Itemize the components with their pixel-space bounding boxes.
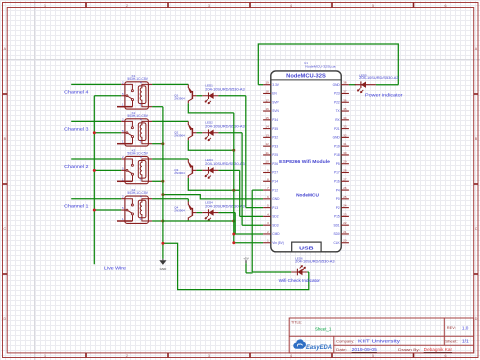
junction bus/K3 bbox=[93, 169, 96, 172]
svg-text:+5V: +5V bbox=[243, 256, 248, 260]
svg-text:6: 6 bbox=[445, 4, 447, 8]
svg-text:P2: P2 bbox=[336, 206, 340, 210]
svg-text:15: 15 bbox=[265, 116, 269, 120]
svg-text:2019-09-05: 2019-09-05 bbox=[352, 347, 378, 352]
svg-text:2: 2 bbox=[126, 4, 128, 8]
svg-text:20: 20 bbox=[343, 239, 347, 243]
module right pins 38..20 bbox=[333, 81, 349, 245]
svg-text:24: 24 bbox=[343, 204, 347, 208]
svg-text:Power indicator: Power indicator bbox=[365, 93, 403, 98]
svg-text:1.0: 1.0 bbox=[462, 325, 469, 330]
wire K2 pin 4 to Q2 collector bbox=[152, 120, 188, 122]
wire coil ground rail bbox=[162, 107, 164, 259]
svg-text:37: 37 bbox=[343, 89, 347, 93]
svg-text:204-10SURD/S530-A3: 204-10SURD/S530-A3 bbox=[205, 204, 245, 208]
junction rail/K3 pin 3 bbox=[161, 180, 164, 183]
relay K2 503H-1C-C5V bbox=[117, 111, 152, 146]
svg-text:P19: P19 bbox=[334, 144, 340, 148]
svg-text:3: 3 bbox=[208, 4, 210, 8]
svg-text:1: 1 bbox=[44, 4, 46, 8]
op-amp U1 NodeMCU-32S module body bbox=[271, 61, 341, 252]
svg-text:KIIT University: KIIT University bbox=[358, 338, 401, 343]
svg-text:EasyEDA: EasyEDA bbox=[306, 344, 332, 351]
svg-text:27: 27 bbox=[343, 177, 347, 181]
svg-text:204-10SURD/S530-A3: 204-10SURD/S530-A3 bbox=[205, 88, 245, 92]
svg-text:Wifi Check Indicator: Wifi Check Indicator bbox=[279, 278, 321, 283]
wire LED3 to module SD2 bbox=[218, 170, 263, 216]
text Power indicator bbox=[365, 93, 403, 98]
svg-text:2N3904: 2N3904 bbox=[174, 171, 185, 175]
wire 3.3V loop over module bbox=[258, 44, 398, 85]
svg-text:1: 1 bbox=[44, 354, 46, 358]
svg-text:Company:: Company: bbox=[336, 339, 354, 343]
wire bus to K2 pin 5 bbox=[94, 132, 121, 134]
svg-text:EN: EN bbox=[272, 92, 277, 96]
svg-text:19: 19 bbox=[265, 81, 269, 85]
wire 3.3V pin 19 bbox=[258, 84, 263, 86]
wire wifi LED right bbox=[307, 271, 309, 273]
svg-text:Channel 4: Channel 4 bbox=[64, 89, 89, 94]
wire Q1 base to LED1 bbox=[196, 95, 202, 97]
svg-text:Debagnik Kar: Debagnik Kar bbox=[424, 347, 453, 352]
svg-text:P4: P4 bbox=[336, 188, 340, 192]
wire GND pin 38 to power LED bbox=[349, 84, 356, 86]
junction rail/Q3 emitter bbox=[232, 189, 235, 192]
wire K1 pin 4 to Q1 collector bbox=[152, 83, 188, 85]
svg-text:Channel 1: Channel 1 bbox=[64, 204, 89, 209]
svg-text:NodeMCU-32SLua: NodeMCU-32SLua bbox=[305, 64, 336, 68]
svg-text:P21: P21 bbox=[334, 127, 340, 131]
relay K4 503H-1C-C5V bbox=[117, 188, 152, 223]
svg-text:13: 13 bbox=[265, 133, 269, 137]
junction rail/wifi loop bbox=[161, 242, 164, 245]
svg-text:GND: GND bbox=[272, 197, 280, 201]
svg-text:P13: P13 bbox=[272, 206, 278, 210]
svg-text:SVN: SVN bbox=[272, 109, 279, 113]
svg-text:14: 14 bbox=[265, 125, 269, 129]
wire Q2 emitter to rail bbox=[188, 140, 234, 150]
svg-text:2: 2 bbox=[126, 354, 128, 358]
svg-text:1/1: 1/1 bbox=[462, 338, 470, 343]
svg-text:36: 36 bbox=[343, 98, 347, 102]
wire Channel 4 to relay pin 2 bbox=[71, 83, 121, 85]
svg-text:5: 5 bbox=[372, 4, 374, 8]
svg-text:17: 17 bbox=[265, 98, 269, 102]
wire LED1 to module P13 bbox=[218, 96, 263, 208]
svg-text:NodeMCU-32S: NodeMCU-32S bbox=[286, 74, 326, 80]
svg-text:25: 25 bbox=[343, 195, 347, 199]
relay K3 503H-1C-C5V bbox=[117, 149, 152, 184]
svg-text:3: 3 bbox=[208, 354, 210, 358]
wire CMD row bbox=[234, 233, 263, 235]
wire Q3 base to LED3 bbox=[196, 169, 202, 171]
svg-text:P0: P0 bbox=[336, 197, 340, 201]
svg-text:USB: USB bbox=[299, 245, 315, 250]
svg-text:Sheet_1: Sheet_1 bbox=[315, 326, 332, 331]
svg-text:SD0: SD0 bbox=[333, 232, 339, 236]
wire bus to K3 pin 5 bbox=[94, 169, 121, 171]
svg-text:P27: P27 bbox=[272, 171, 278, 175]
svg-text:11: 11 bbox=[266, 151, 269, 155]
svg-text:Sheet:: Sheet: bbox=[445, 339, 458, 343]
svg-text:P35: P35 bbox=[272, 127, 278, 131]
wire bus to K1 pin 5 bbox=[94, 95, 121, 97]
net label Channel 1 bbox=[64, 204, 89, 209]
wire LED4 drop to CMD row bbox=[218, 213, 235, 234]
svg-text:3.3V: 3.3V bbox=[272, 83, 279, 87]
net label Channel 2 bbox=[64, 164, 89, 169]
wire Q3 emitter over to drop bbox=[188, 178, 239, 190]
ground symbol GND bbox=[159, 259, 167, 271]
svg-text:P25: P25 bbox=[272, 153, 278, 157]
svg-text:204-10SURD/S530-A3: 204-10SURD/S530-A3 bbox=[359, 76, 399, 80]
svg-text:5: 5 bbox=[372, 354, 374, 358]
svg-text:ESP8266 Wifi Module: ESP8266 Wifi Module bbox=[279, 159, 330, 164]
net label Live Wire bbox=[104, 266, 126, 271]
LED1 204-10SURD/S530-A3 bbox=[202, 83, 245, 103]
svg-text:4: 4 bbox=[290, 4, 292, 8]
svg-text:Date:: Date: bbox=[336, 348, 347, 352]
svg-text:SD2: SD2 bbox=[272, 215, 278, 219]
svg-text:Channel 2: Channel 2 bbox=[64, 164, 89, 169]
svg-text:23: 23 bbox=[343, 212, 347, 216]
junction rail/CMD bbox=[232, 233, 235, 236]
svg-text:204-10SURD/S530-A3: 204-10SURD/S530-A3 bbox=[295, 260, 335, 264]
svg-text:NodeMCU: NodeMCU bbox=[296, 193, 320, 198]
wire K4 pin 3 to ground rail bbox=[152, 220, 163, 222]
svg-text:SD3: SD3 bbox=[272, 223, 278, 227]
svg-text:31: 31 bbox=[343, 142, 347, 146]
svg-text:P26: P26 bbox=[272, 162, 278, 166]
svg-text:REV:: REV: bbox=[447, 326, 456, 330]
svg-text:Drawn By:: Drawn By: bbox=[398, 348, 420, 352]
svg-text:503H-1C-C5V: 503H-1C-C5V bbox=[127, 191, 148, 195]
+5V supply flag bbox=[243, 256, 248, 263]
wire power LED to loop bbox=[376, 84, 398, 86]
junction rail/K2 pin 3 bbox=[161, 142, 164, 145]
svg-text:26: 26 bbox=[343, 186, 347, 190]
svg-text:TITLE:: TITLE: bbox=[291, 320, 302, 324]
svg-text:503H-1C-C5V: 503H-1C-C5V bbox=[127, 114, 148, 118]
EasyEDA logo bbox=[294, 340, 333, 351]
svg-text:C: C bbox=[3, 227, 6, 231]
svg-text:35: 35 bbox=[343, 107, 347, 111]
svg-text:GND: GND bbox=[333, 136, 341, 140]
svg-text:10: 10 bbox=[265, 160, 269, 164]
wire Channel 2 to relay pin 2 bbox=[71, 158, 121, 160]
svg-text:P17: P17 bbox=[334, 171, 340, 175]
svg-text:C: C bbox=[475, 227, 478, 231]
svg-text:22: 22 bbox=[343, 221, 347, 225]
svg-text:2N3904: 2N3904 bbox=[174, 134, 185, 138]
transistor Q1 2N3904 bbox=[174, 85, 196, 104]
relay K1 503H-1C-C5V bbox=[117, 74, 152, 109]
svg-text:38: 38 bbox=[343, 81, 347, 85]
svg-text:30: 30 bbox=[343, 151, 347, 155]
svg-text:2N3904: 2N3904 bbox=[174, 209, 185, 213]
net label Channel 3 bbox=[64, 126, 89, 131]
svg-text:32: 32 bbox=[343, 133, 347, 137]
LED6 wifi check 204-10SURD/S530-A3 bbox=[291, 256, 335, 275]
svg-text:P22: P22 bbox=[334, 100, 340, 104]
wire Channel 3 to relay pin 2 bbox=[71, 120, 121, 122]
LED3 204-10SURD/S530-A3 bbox=[202, 158, 245, 178]
wire rail to wifi loop bbox=[163, 243, 309, 289]
svg-text:D: D bbox=[3, 317, 6, 321]
wire +5V to wifi LED line bbox=[246, 263, 253, 273]
wire module P12 pin 7 bbox=[252, 189, 263, 191]
transistor Q4 2N3904 bbox=[174, 201, 196, 220]
LED4 204-10SURD/S530-A3 bbox=[202, 200, 245, 220]
module left pins 19..1 bbox=[263, 81, 284, 245]
svg-text:CMD: CMD bbox=[272, 232, 280, 236]
junction rail/Q4 emitter bbox=[232, 220, 235, 223]
svg-text:Live Wire: Live Wire bbox=[104, 266, 126, 271]
text Wifi Check Indicator bbox=[279, 278, 321, 283]
svg-text:P15: P15 bbox=[334, 215, 340, 219]
svg-text:4: 4 bbox=[290, 354, 292, 358]
wire K2 pin 3 to ground rail bbox=[152, 143, 163, 145]
wire bus to K4 pin 5 bbox=[94, 209, 121, 211]
svg-text:SD1: SD1 bbox=[333, 223, 339, 227]
svg-text:P5: P5 bbox=[336, 162, 340, 166]
svg-text:P12: P12 bbox=[272, 188, 278, 192]
LED5 power indicator 204-10SURD/S530-A3 bbox=[355, 74, 399, 93]
svg-text:GND: GND bbox=[333, 83, 341, 87]
svg-text:P18: P18 bbox=[334, 153, 340, 157]
junction rail/Q2 emitter bbox=[232, 149, 235, 152]
svg-text:P16: P16 bbox=[334, 179, 340, 183]
svg-text:28: 28 bbox=[343, 169, 347, 173]
wire rail to module GND pin 6 bbox=[163, 195, 263, 199]
svg-text:204-10SURD/S530-A3: 204-10SURD/S530-A3 bbox=[205, 162, 245, 166]
svg-text:P23: P23 bbox=[334, 92, 340, 96]
svg-text:12: 12 bbox=[265, 142, 269, 146]
wire P12 down to wifi LED bbox=[252, 190, 291, 272]
wire Q2 base to LED2 bbox=[196, 132, 202, 134]
svg-text:P33: P33 bbox=[272, 144, 278, 148]
transistor Q2 2N3904 bbox=[174, 122, 196, 141]
wire emitter rail vertical bbox=[233, 113, 235, 243]
junction bus/K2 bbox=[93, 131, 96, 134]
svg-text:21: 21 bbox=[343, 230, 347, 234]
junction rail/K4 pin 3 bbox=[161, 220, 164, 223]
wire LED2 to module SD3 bbox=[218, 133, 263, 225]
transistor Q3 2N3904 bbox=[174, 159, 196, 178]
svg-text:16: 16 bbox=[265, 107, 269, 111]
USB connector box bbox=[292, 242, 321, 252]
svg-text:GND: GND bbox=[160, 267, 168, 271]
svg-text:503H-1C-C5V: 503H-1C-C5V bbox=[127, 77, 148, 81]
svg-text:33: 33 bbox=[343, 125, 347, 129]
svg-text:503H-1C-C5V: 503H-1C-C5V bbox=[127, 152, 148, 156]
wire Q4 base to LED4 bbox=[196, 212, 202, 214]
svg-text:SVP: SVP bbox=[272, 100, 278, 104]
svg-text:D: D bbox=[475, 317, 478, 321]
svg-text:2N3904: 2N3904 bbox=[174, 97, 185, 101]
wire Q4 emitter row bbox=[163, 219, 234, 222]
svg-text:204-10SURD/S530-A3: 204-10SURD/S530-A3 bbox=[205, 125, 245, 129]
junction rail/Vin bbox=[232, 241, 235, 244]
wire live-wire bus bbox=[93, 96, 95, 265]
svg-text:P34: P34 bbox=[272, 118, 278, 122]
junction rail/GND wire bbox=[161, 193, 164, 196]
net label Channel 4 bbox=[64, 89, 89, 94]
wire Q1 emitter to rail bbox=[188, 103, 234, 113]
LED2 204-10SURD/S530-A3 bbox=[202, 120, 245, 140]
svg-text:P14: P14 bbox=[272, 179, 278, 183]
svg-text:29: 29 bbox=[343, 160, 347, 164]
svg-text:Vin (5V): Vin (5V) bbox=[272, 241, 283, 245]
svg-text:34: 34 bbox=[343, 116, 347, 120]
wire K3 pin 4 to Q3 collector bbox=[152, 158, 188, 160]
svg-text:P32: P32 bbox=[272, 136, 278, 140]
junction bus/K4 bbox=[93, 209, 96, 212]
wire Vin row bbox=[234, 242, 263, 244]
wire K4 pin 4 to Q4 collector bbox=[152, 199, 188, 202]
svg-text:Channel 3: Channel 3 bbox=[64, 126, 89, 131]
wire Channel 1 to relay pin 2 bbox=[71, 198, 121, 200]
wire K3 pin 3 to ground rail bbox=[152, 180, 163, 182]
svg-text:18: 18 bbox=[265, 89, 269, 93]
svg-text:6: 6 bbox=[445, 354, 447, 358]
wire K1 pin 3 to ground rail bbox=[152, 106, 163, 108]
svg-text:CLK: CLK bbox=[333, 241, 340, 245]
title block bbox=[289, 318, 474, 353]
